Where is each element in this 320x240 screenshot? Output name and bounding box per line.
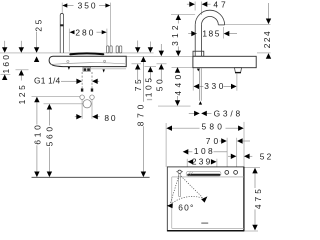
svg-text:580: 580 <box>202 122 226 132</box>
svg-text:75: 75 <box>133 77 143 92</box>
svg-text:870: 870 <box>136 101 146 126</box>
svg-text:560: 560 <box>45 124 55 146</box>
svg-text:52: 52 <box>260 152 273 162</box>
svg-text:224: 224 <box>262 30 272 48</box>
svg-text:610: 610 <box>32 123 42 145</box>
svg-text:330: 330 <box>204 81 226 91</box>
svg-text:350: 350 <box>78 1 98 11</box>
svg-text:G3/8: G3/8 <box>214 108 243 118</box>
svg-text:80: 80 <box>104 113 117 123</box>
svg-text:440: 440 <box>173 71 183 95</box>
svg-text:105: 105 <box>143 75 153 97</box>
svg-text:G1 1/4: G1 1/4 <box>34 76 60 86</box>
svg-text:312: 312 <box>170 22 180 46</box>
svg-text:60°: 60° <box>178 202 194 212</box>
svg-text:25: 25 <box>33 17 43 32</box>
svg-text:47: 47 <box>213 0 228 10</box>
svg-text:280: 280 <box>75 27 95 37</box>
svg-text:239: 239 <box>192 157 213 167</box>
svg-text:108: 108 <box>194 146 215 156</box>
svg-text:475: 475 <box>253 186 263 209</box>
svg-text:70: 70 <box>206 136 222 146</box>
svg-text:125: 125 <box>17 83 27 105</box>
svg-text:160: 160 <box>1 53 11 74</box>
svg-text:50: 50 <box>155 77 165 92</box>
svg-text:185: 185 <box>202 29 220 39</box>
